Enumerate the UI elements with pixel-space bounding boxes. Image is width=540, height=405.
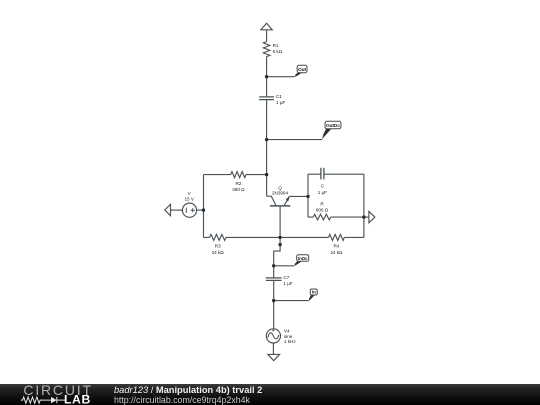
flag Out <box>295 65 307 77</box>
wire R3 R4 row <box>204 236 364 238</box>
capacitor C7 <box>266 278 282 281</box>
resistor R 600 <box>313 214 331 220</box>
wire V to node <box>197 209 204 211</box>
svg-text:C7: C7 <box>283 275 289 280</box>
flag In <box>309 289 318 301</box>
wire left vertical <box>203 175 205 238</box>
power supply symbol VCC <box>261 23 272 30</box>
svg-text:OutDc: OutDc <box>326 123 340 128</box>
labels <box>184 43 343 344</box>
footer title text <box>114 385 262 395</box>
svg-text:C1: C1 <box>276 94 282 99</box>
svg-text:360 Ω: 360 Ω <box>232 187 245 192</box>
svg-text:C: C <box>321 184 325 189</box>
CircuitLab logo <box>14 384 114 405</box>
resistor R3 <box>210 234 226 240</box>
svg-text:1 µF: 1 µF <box>276 100 285 105</box>
svg-text:15 V: 15 V <box>184 197 194 202</box>
capacitor C1 <box>259 97 274 100</box>
svg-text:LAB: LAB <box>64 393 91 405</box>
svg-text:2N3904: 2N3904 <box>272 191 289 196</box>
wire V4 to ground <box>272 343 274 354</box>
wire R2 row <box>204 174 267 176</box>
wire R1 to C1 <box>266 57 268 97</box>
wire base jog down to C7 <box>274 237 280 278</box>
svg-text:1 µF: 1 µF <box>318 190 327 195</box>
voltage source V <box>182 203 196 217</box>
svg-text:Out: Out <box>298 67 306 72</box>
ground <box>268 354 280 360</box>
wire node InDc <box>274 265 295 267</box>
svg-text:In: In <box>312 290 316 295</box>
wire node In <box>274 300 309 302</box>
feedback loop top wire <box>308 173 364 175</box>
svg-text:6 kΩ: 6 kΩ <box>273 49 283 54</box>
svg-text:1 kHz: 1 kHz <box>284 339 296 344</box>
svg-text:V: V <box>188 191 192 196</box>
svg-text:R: R <box>320 202 324 207</box>
footer url text <box>114 395 250 405</box>
junction node dots <box>202 75 366 302</box>
resistor R2 <box>231 172 246 178</box>
transistor Q 2N3904 <box>267 196 308 237</box>
port flag right <box>369 211 375 222</box>
svg-text:600 Ω: 600 Ω <box>316 208 329 213</box>
arrow emitter Q <box>286 197 290 202</box>
wire C7 to V4 <box>273 280 275 328</box>
wire port to V <box>171 209 183 211</box>
svg-text:24 kΩ: 24 kΩ <box>330 250 343 255</box>
svg-text:V4: V4 <box>284 329 290 334</box>
feedback loop bottom wire <box>308 216 364 218</box>
wire to right port <box>364 216 369 218</box>
svg-text:R4: R4 <box>333 244 339 249</box>
feedback loop left vertical wire <box>307 174 309 217</box>
svg-text:R2: R2 <box>235 181 241 186</box>
port flag left <box>165 204 171 215</box>
svg-text:R3: R3 <box>215 244 221 249</box>
feedback loop right vertical wire <box>363 174 365 237</box>
wire VCC to R1 <box>266 30 268 42</box>
wire C1 to collector <box>266 100 268 197</box>
resistor R4 <box>329 234 345 240</box>
svg-text:sine: sine <box>284 334 293 339</box>
svg-text:R1: R1 <box>273 43 279 48</box>
svg-text:1 µF: 1 µF <box>283 281 292 286</box>
flag OutDc <box>322 121 341 139</box>
flag InDc <box>294 255 309 266</box>
svg-text:24 kΩ: 24 kΩ <box>212 250 225 255</box>
voltage source V4 <box>266 329 280 343</box>
svg-text:InDc: InDc <box>298 256 308 261</box>
resistor R1 <box>263 42 269 57</box>
capacitor C <box>321 168 324 180</box>
wire node OutDc <box>267 139 323 141</box>
wire node Out <box>267 76 295 78</box>
